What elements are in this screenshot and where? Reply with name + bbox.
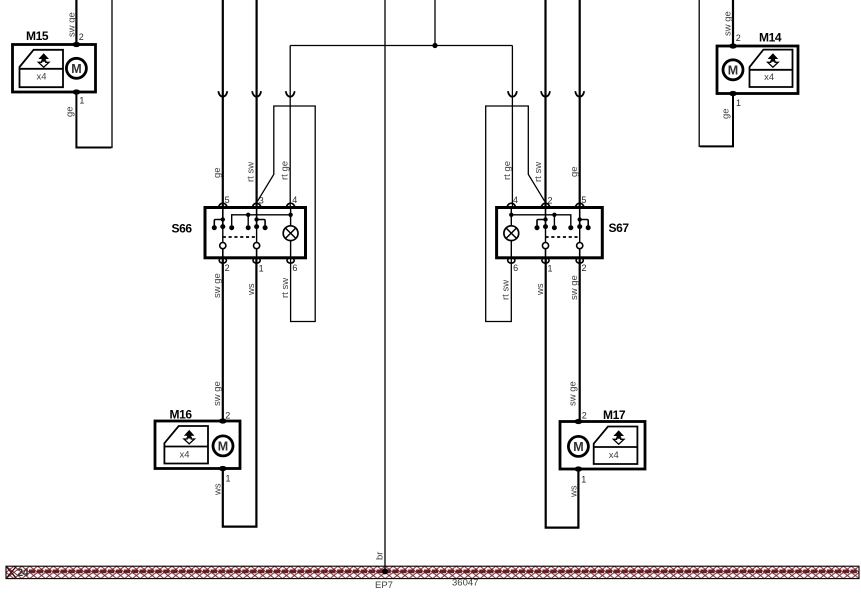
svg-text:1: 1	[548, 264, 553, 274]
wire label ws (M17 pin1)	[568, 485, 579, 498]
movable contact circle S67 left	[542, 243, 548, 249]
switch S67 body	[497, 208, 603, 258]
terminal ring S67 pin1	[542, 258, 549, 263]
svg-text:sw ge: sw ge	[568, 381, 579, 406]
svg-text:M17: M17	[603, 408, 626, 422]
wire sw/ge S67 pin2 to M17 pin2	[579, 258, 581, 422]
wire ws S66 pin1 to M16 pin1	[223, 258, 257, 527]
wire label rt sw (S67 pin6)	[501, 280, 512, 300]
svg-text:rt sw: rt sw	[280, 278, 291, 298]
wire rt/sw loop S67 pin6 to pin2	[486, 106, 545, 322]
terminal arc S66 pin5	[219, 203, 227, 207]
svg-text:ge: ge	[212, 167, 223, 178]
arrow on wire ge S66	[218, 91, 227, 97]
wire ge from M14 pin1 loop to top	[699, 0, 733, 147]
pin 5 label S67	[581, 195, 586, 205]
junction dot br wire to ground bar	[382, 568, 388, 574]
svg-text:ge: ge	[569, 166, 580, 177]
svg-text:rt sw: rt sw	[246, 162, 257, 182]
wire sw/ge to M14 pin2	[732, 0, 734, 46]
wire label ws (S66 pin1)	[246, 283, 257, 296]
svg-text:1: 1	[736, 98, 741, 108]
svg-text:1: 1	[226, 474, 231, 484]
wire label ws (S67 pin1)	[535, 283, 546, 296]
pin dot M17 pin1	[575, 466, 583, 471]
wire rt/ge drop to S66 pin4	[289, 46, 291, 208]
wire rt/ge drop to S67 pin4	[511, 46, 513, 208]
terminal ring S67 pin6	[508, 258, 515, 263]
arrow on wire ge S67	[575, 91, 584, 97]
pin 3 label S66	[259, 196, 264, 206]
pin 4 label S67	[513, 195, 518, 205]
svg-text:2: 2	[79, 32, 84, 42]
svg-text:rt sw: rt sw	[501, 280, 512, 300]
S67 left hook arm to left contact	[537, 220, 546, 226]
pin dot M15 pin1	[73, 89, 81, 94]
contact dot S67 right outer	[586, 225, 591, 230]
svg-text:1: 1	[259, 264, 264, 274]
svg-text:24: 24	[17, 567, 30, 579]
svg-text:2: 2	[548, 196, 553, 206]
svg-text:sw ge: sw ge	[722, 11, 733, 36]
wire ge feed to S67 pin5	[579, 0, 581, 208]
terminal ring S66 pin1	[253, 258, 260, 263]
terminal arc S66 pin3	[253, 203, 261, 207]
arrow on wire rt sw S66	[252, 91, 261, 97]
svg-text:M15: M15	[26, 29, 49, 43]
svg-text:M: M	[573, 440, 583, 454]
junction dot S66 lamp top	[288, 213, 292, 217]
svg-text:EP7: EP7	[375, 580, 393, 591]
S66 lamp feed rail	[232, 215, 291, 226]
junction dot S67 right pivot	[578, 217, 582, 221]
contact dot S67 left outer	[535, 225, 540, 230]
component label M15	[26, 29, 49, 43]
lamp E (illumination) in S66	[283, 226, 298, 241]
junction dot S66 lamp rail	[246, 213, 250, 217]
wire ws S67 pin1 to M17 pin1	[546, 258, 579, 528]
wire label sw ge (M16 pin2)	[212, 381, 223, 406]
wire label rt sw (S66 pin3 feed)	[246, 162, 257, 182]
component label S66	[172, 222, 193, 236]
S67 lamp rail drop to contact	[553, 215, 555, 226]
component label M17	[603, 408, 626, 422]
svg-text:2: 2	[225, 263, 230, 273]
wire label sw ge (S67 pin2)	[569, 275, 580, 300]
terminal arc S67 pin2	[542, 203, 550, 207]
contact dot S66 right middle	[254, 224, 259, 229]
S66 left switch arm	[222, 227, 224, 243]
svg-text:sw ge: sw ge	[212, 273, 223, 298]
junction dot S67 lamp rail	[552, 213, 556, 217]
lamp E (illumination) in S67	[504, 226, 519, 241]
wire label ws (M16 pin1)	[213, 483, 224, 496]
wire label ge (S66 pin5 feed)	[212, 167, 223, 178]
arrow on wire rt ge S67	[508, 91, 517, 97]
wire sw/ge S66 pin2 to M16 pin2	[222, 258, 224, 421]
component label M16	[170, 408, 193, 422]
contact dot S66 left inner (lamp fed)	[229, 225, 234, 230]
pin dot M14 pin1	[729, 91, 737, 96]
svg-text:2: 2	[582, 263, 587, 273]
pin 1 label S66	[259, 264, 264, 274]
S67 lamp feed rail	[511, 215, 571, 226]
svg-text:M: M	[71, 62, 81, 76]
S66 right arm to pin1	[256, 249, 258, 258]
svg-text:ws: ws	[213, 483, 224, 496]
svg-text:x4: x4	[36, 72, 46, 83]
pin 6 label S67	[513, 263, 518, 273]
wire sw/ge feed to S66 pin5 (net ge)	[222, 0, 224, 208]
arrow on wire rt ge S66	[286, 91, 295, 97]
terminal arc S66 pin4	[287, 203, 295, 207]
svg-text:2: 2	[736, 33, 741, 43]
lamp vertical S67 lamp to pin6	[510, 241, 512, 258]
wire br ground line	[384, 0, 386, 570]
S67 pin5 internal line to middle contact	[579, 208, 581, 227]
svg-text:5: 5	[225, 195, 230, 205]
junction dot S67 lamp top	[509, 213, 513, 217]
svg-text:ws: ws	[568, 485, 579, 498]
pin 4 label S66	[292, 195, 297, 205]
wire label sw ge (M15 pin2)	[66, 12, 77, 37]
diagram number 36047	[452, 578, 478, 589]
motor M16	[155, 421, 240, 469]
movable contact circle S66 left	[220, 243, 226, 249]
svg-text:ge: ge	[64, 106, 75, 117]
S66 right hook arm to right contact	[257, 220, 266, 226]
pin 2 label M16	[225, 411, 230, 421]
terminal arc S67 pin4	[507, 203, 515, 207]
pin dot M14 pin2	[729, 43, 737, 48]
svg-text:36047: 36047	[452, 578, 478, 589]
pin 1 label S67	[548, 264, 553, 274]
contact dot S66 right outer	[263, 225, 268, 230]
S66 right switch arm	[256, 227, 258, 243]
lamp vertical S66 pin4 to lamp	[290, 208, 292, 226]
contact dot S67 right middle	[577, 224, 582, 229]
wire rt/sw feed to S67 pin2	[544, 0, 546, 208]
pin dot M17 pin2	[575, 419, 583, 424]
svg-text:sw ge: sw ge	[569, 275, 580, 300]
svg-text:M: M	[218, 439, 228, 453]
switch S66 body	[205, 208, 306, 258]
motor M17	[560, 422, 645, 470]
svg-text:6: 6	[513, 263, 518, 273]
svg-text:ws: ws	[535, 283, 546, 296]
svg-text:x4: x4	[764, 72, 774, 83]
svg-text:2: 2	[225, 411, 230, 421]
contact dot S66 left middle	[220, 224, 225, 229]
svg-text:ge: ge	[720, 108, 731, 119]
wire label ge (M15 pin1)	[64, 106, 75, 117]
pin 2 label M17	[582, 411, 587, 421]
movable contact circle S66 right	[254, 243, 260, 249]
S66 left hook arm to left contact	[214, 220, 223, 226]
svg-text:4: 4	[292, 195, 297, 205]
motor M15	[13, 45, 96, 93]
pin 1 label M16	[226, 474, 231, 484]
ground point label EP7	[375, 580, 393, 591]
wire rt/ge distribution: stub from top	[434, 0, 436, 46]
pin 2 label S66	[225, 263, 230, 273]
wire label rt ge (S66 pin4 feed)	[280, 161, 291, 180]
mechanical link dashed S66	[223, 236, 257, 238]
pin 6 label S66	[292, 263, 297, 273]
svg-text:sw ge: sw ge	[212, 381, 223, 406]
svg-text:x4: x4	[609, 450, 619, 461]
pin 2 label M15	[79, 32, 84, 42]
svg-text:br: br	[374, 552, 385, 560]
contact dot S66 left outer	[212, 225, 217, 230]
S66 pin5 internal line to middle contact	[222, 208, 224, 227]
svg-text:rt ge: rt ge	[280, 161, 291, 180]
junction dot rt/ge node	[432, 43, 437, 48]
contact dot S67 mid inner (lamp fed)	[552, 225, 557, 230]
junction dot S67 left pivot	[543, 217, 547, 221]
S67 left switch arm	[545, 227, 547, 243]
arrow on wire rt sw S67	[541, 91, 550, 97]
svg-text:M16: M16	[170, 408, 193, 422]
pin 5 label S66	[225, 195, 230, 205]
pin dot M16 pin2	[219, 418, 227, 423]
movable contact circle S67 right	[577, 243, 583, 249]
wire rt/sw feed to S66 pin3	[256, 0, 258, 208]
svg-text:ws: ws	[246, 283, 257, 296]
svg-text:rt sw: rt sw	[533, 162, 544, 182]
junction dot S66 left pivot	[221, 217, 225, 221]
svg-text:M14: M14	[759, 31, 782, 45]
contact dot S67 right inner (lamp fed)	[568, 225, 573, 230]
motor M14	[717, 46, 798, 94]
S67 right arm to pin2 bottom	[579, 249, 581, 258]
wire label rt ge (S67 pin4 feed)	[502, 161, 513, 180]
pin 2 label S67 bottom	[582, 263, 587, 273]
S67 right switch arm	[579, 227, 581, 243]
svg-text:4: 4	[513, 195, 518, 205]
pin dot M15 pin2	[73, 42, 81, 47]
wire rt/sw loop S66 pin6 to pin3	[257, 106, 315, 322]
ground bar EP7 (hatched earth rail)	[6, 566, 859, 578]
svg-text:2: 2	[582, 411, 587, 421]
ground bar track number 24	[17, 567, 30, 579]
wire label ge (M14 pin1)	[720, 108, 731, 119]
S67 right hook arm to right contact	[580, 220, 589, 226]
wire label br	[374, 552, 385, 560]
contact dot S66 mid inner (lamp fed)	[246, 225, 251, 230]
svg-text:S67: S67	[609, 221, 630, 235]
pin 2 label M14	[736, 33, 741, 43]
terminal ring S66 pin6	[287, 258, 294, 263]
component label S67	[609, 221, 630, 235]
junction dot S66 right pivot	[254, 217, 258, 221]
terminal ring S67 pin2 bottom	[576, 258, 583, 263]
wire rt/ge horizontal distribution	[290, 45, 512, 47]
wire label ge (S67 pin5 feed)	[569, 166, 580, 177]
lamp vertical S66 lamp to pin6	[290, 241, 292, 258]
terminal ring S66 pin2	[219, 258, 226, 263]
S66 lamp rail drop to contact	[247, 215, 249, 226]
wire ge from M15 pin1 loop to top	[76, 0, 112, 148]
svg-text:M: M	[728, 63, 738, 77]
S67 left arm to pin1	[545, 249, 547, 258]
S67 pin2 internal line to middle contact	[545, 208, 547, 227]
lamp vertical S67 pin4 to lamp	[510, 208, 512, 226]
svg-text:5: 5	[581, 195, 586, 205]
S66 pin3 internal line to middle contact	[256, 208, 258, 227]
component label M14	[759, 31, 782, 45]
svg-text:sw ge: sw ge	[66, 12, 77, 37]
wire label rt sw (S67 pin2 feed)	[533, 162, 544, 182]
svg-text:1: 1	[79, 96, 84, 106]
wire label sw ge (M17 pin2)	[568, 381, 579, 406]
wire label sw ge (M14 pin2)	[722, 11, 733, 36]
terminal arc S67 pin5	[576, 203, 584, 207]
svg-text:1: 1	[581, 475, 586, 485]
wire label sw ge (S66 pin2)	[212, 273, 223, 298]
wire sw/ge to M15 pin2	[75, 0, 77, 45]
svg-text:6: 6	[292, 263, 297, 273]
S66 left arm to pin2	[222, 249, 224, 258]
pin 1 label M17	[581, 475, 586, 485]
contact dot S67 left middle	[543, 224, 548, 229]
svg-text:rt ge: rt ge	[502, 161, 513, 180]
svg-text:S66: S66	[172, 222, 193, 236]
svg-text:x4: x4	[179, 449, 189, 460]
pin 2 label S67 top	[548, 196, 553, 206]
pin 1 label M14	[736, 98, 741, 108]
pin 1 label M15	[79, 96, 84, 106]
mechanical link dashed S67	[546, 236, 580, 238]
wire label rt sw (S66 pin6)	[280, 278, 291, 298]
pin dot M16 pin1	[219, 466, 227, 471]
